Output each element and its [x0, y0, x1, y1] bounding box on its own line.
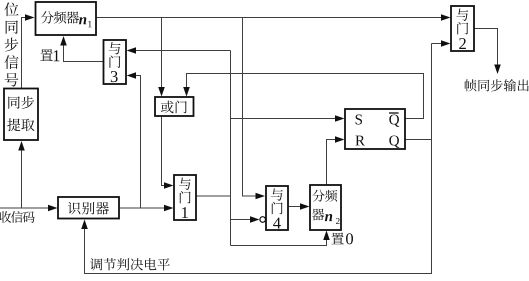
- wire net-G: Q output to 与门2 input2 and down to 识别器 level adjust: [81, 40, 450, 273]
- wire net-B: 与门3 output to 分频器n1 置1 input: [60, 36, 103, 62]
- wire net-I: 分频器n2 output to R input of flip-flop: [327, 136, 345, 185]
- block 识别器 (recognizer): [58, 197, 119, 219]
- wire net-C branch to S input of flip-flop: [231, 115, 345, 122]
- label 帧同步输出 (frame sync output): [465, 79, 529, 91]
- flip-flop SR (S R Q Qbar): [345, 109, 405, 149]
- label 收信码 (received code): [0, 211, 35, 223]
- wire net-D tap up to 与门3 input2: [127, 72, 141, 208]
- wire net-C: 与门1 output vertical bus: [196, 51, 231, 246]
- wire net-D: 识别器 output to 与门1 input2: [119, 205, 174, 212]
- wire net-K: 收信码 input line to 识别器: [0, 205, 58, 212]
- block 与门3 (AND gate 3): [104, 40, 127, 84]
- block 分频器n1 (frequency divider n1): [36, 2, 97, 35]
- block 与门4 (AND gate 4): [266, 186, 288, 230]
- wire net-F: Q-bar output feedback to 或门 top-right input: [183, 74, 423, 119]
- label 置0 (set 0): [331, 233, 353, 245]
- label 调节判决电平 (adjust decision level): [90, 258, 170, 271]
- wire net-K tap up to 同步提取: [18, 141, 25, 208]
- wire net-C branch to 与门4 inverted input (bubble): [231, 216, 266, 223]
- wire net-A: 分频器n1 output to 与门2 input1: [96, 14, 451, 21]
- wire net-E: 或门 output to 与门1 input1: [162, 116, 174, 189]
- wire net-L: 与门2 output to 帧同步输出: [474, 29, 501, 75]
- wire: 同步提取 output up and into 分频器n1: [22, 14, 35, 88]
- block 与门2 (AND gate 2): [451, 6, 474, 51]
- wire net-A tap down to AND4 top input: [243, 18, 266, 200]
- block 与门1 (AND gate 1): [174, 175, 196, 220]
- block 或门 (OR gate): [155, 97, 194, 116]
- wire net-J: 与门4 output to 分频器n2 input: [288, 203, 310, 210]
- label 置1 (set 1): [40, 49, 59, 61]
- wire net-C branch to 与门3 input1: [127, 47, 231, 54]
- wire net-C branch to 分频器n2 置0 input: [231, 231, 330, 246]
- block 分频器n2 (frequency divider n2): [310, 185, 341, 230]
- block 同步提取 (sync extraction): [4, 89, 38, 141]
- wire net-A tap down to OR gate top-left input: [158, 18, 165, 97]
- label 位同步信号 (bit sync signal, vertical): [4, 2, 18, 86]
